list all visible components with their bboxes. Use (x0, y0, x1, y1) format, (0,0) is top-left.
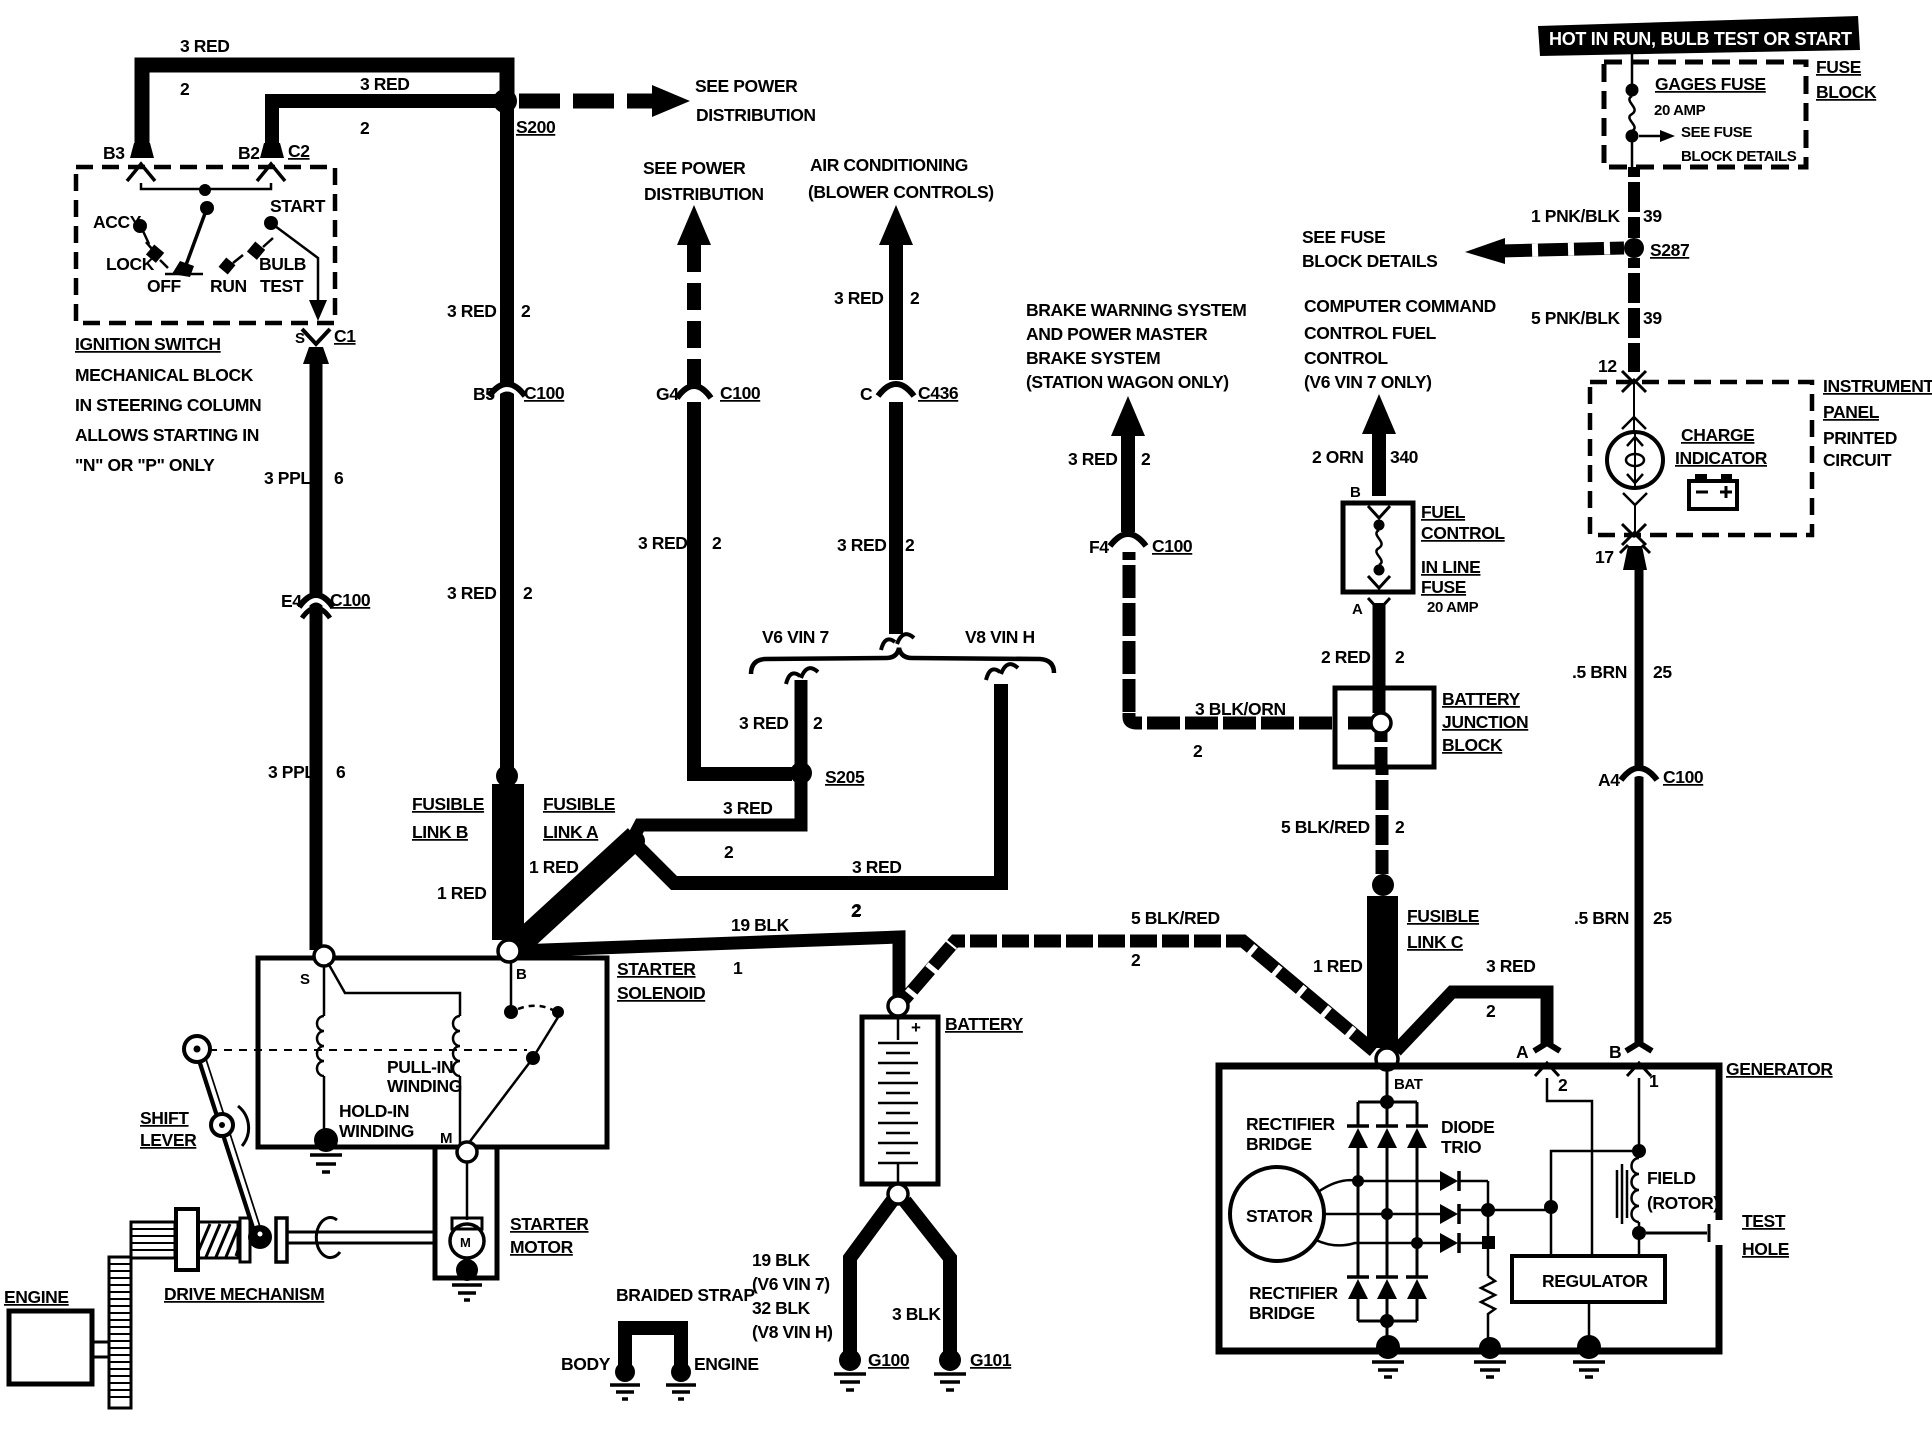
svg-text:SEE FUSE: SEE FUSE (1681, 124, 1752, 141)
connector into instrument panel (1622, 371, 1646, 392)
svg-text:2: 2 (1558, 1075, 1568, 1095)
svg-text:LOCK: LOCK (106, 254, 155, 274)
arrowhead C436 (879, 205, 913, 245)
wire 3 RED (B3 to S200 top run) (142, 65, 507, 150)
contact ACCY (133, 219, 147, 233)
wire G4 dashed (687, 245, 701, 388)
svg-text:3 PPL: 3 PPL (264, 468, 311, 488)
svg-text:E4: E4 (281, 591, 302, 611)
wire 2 ORN (1372, 434, 1386, 496)
svg-text:C436: C436 (918, 383, 959, 403)
svg-text:JUNCTION: JUNCTION (1442, 712, 1528, 732)
shift lever link dashed (209, 1049, 527, 1051)
svg-text:C100: C100 (1663, 767, 1704, 787)
svg-text:M: M (440, 1130, 452, 1147)
battery junction block (1335, 688, 1434, 767)
motor wire (466, 1162, 469, 1220)
diode trio 2 (1440, 1204, 1458, 1224)
wire 3 RED (B2 to S200) (272, 101, 500, 150)
junction (200, 201, 214, 215)
svg-text:G100: G100 (868, 1350, 910, 1370)
connector curl C436 bottom (881, 634, 914, 650)
svg-text:FUSIBLE: FUSIBLE (543, 794, 615, 814)
wire through junction block (1373, 690, 1386, 713)
diode top 1 (1347, 1124, 1369, 1128)
stator lead 1 (1318, 1180, 1440, 1192)
terminal A (1534, 1043, 1560, 1051)
switch arm (186, 208, 207, 265)
svg-text:20 AMP: 20 AMP (1654, 102, 1706, 119)
svg-text:BRIDGE: BRIDGE (1249, 1303, 1315, 1323)
connector A4 C100 (1622, 772, 1656, 783)
svg-text:2: 2 (1486, 1001, 1496, 1021)
battery terminal circle top (888, 996, 908, 1016)
starter motor housing (435, 1147, 497, 1278)
svg-text:FUSE: FUSE (1816, 57, 1861, 77)
svg-text:LINK B: LINK B (412, 822, 468, 842)
svg-text:STARTER: STARTER (510, 1214, 589, 1234)
svg-text:BLOCK: BLOCK (1816, 82, 1877, 102)
regulator box (1512, 1256, 1665, 1302)
svg-text:BODY: BODY (561, 1354, 611, 1374)
svg-text:B5: B5 (473, 384, 495, 404)
svg-text:3 RED: 3 RED (180, 36, 230, 56)
svg-text:C100: C100 (1152, 536, 1193, 556)
svg-text:2: 2 (1395, 817, 1405, 837)
connector below A (1368, 598, 1390, 610)
svg-text:BRIDGE: BRIDGE (1246, 1134, 1312, 1154)
svg-text:B: B (1350, 484, 1361, 501)
svg-text:FUSIBLE: FUSIBLE (412, 794, 484, 814)
svg-text:2: 2 (910, 288, 920, 308)
svg-text:WINDING: WINDING (387, 1076, 462, 1096)
arrowhead computer command (1362, 394, 1396, 434)
shaft flange (276, 1218, 287, 1262)
svg-text:DIODE: DIODE (1441, 1117, 1494, 1137)
svg-text:340: 340 (1390, 447, 1419, 467)
diode bottom 3 (1406, 1275, 1428, 1279)
svg-text:PANEL: PANEL (1823, 402, 1880, 422)
svg-text:.5 BRN: .5 BRN (1574, 908, 1629, 928)
contact BULB TEST (247, 242, 265, 260)
svg-text:ALLOWS STARTING IN: ALLOWS STARTING IN (75, 425, 259, 445)
svg-text:3 RED: 3 RED (1486, 956, 1536, 976)
arrow see fuse block details (1639, 135, 1662, 138)
rectifier bus top (1358, 1102, 1417, 1126)
wire 3 RED BAT to A terminal (1396, 992, 1547, 1051)
svg-text:CIRCUIT: CIRCUIT (1823, 450, 1892, 470)
connector E4 C100 (300, 598, 332, 610)
svg-text:2: 2 (1395, 647, 1405, 667)
svg-text:INDICATOR: INDICATOR (1675, 448, 1768, 468)
svg-text:S287: S287 (1650, 240, 1689, 260)
svg-text:19 BLK: 19 BLK (731, 915, 790, 935)
svg-text:+: + (911, 1018, 921, 1037)
svg-text:CONTROL: CONTROL (1421, 523, 1505, 543)
svg-text:2: 2 (905, 535, 915, 555)
svg-text:3 BLK: 3 BLK (892, 1304, 941, 1324)
svg-text:REGULATOR: REGULATOR (1542, 1271, 1648, 1291)
drive flange (176, 1209, 198, 1270)
wire S205 down-left to link A splice (630, 775, 801, 844)
svg-text:3 RED: 3 RED (852, 857, 902, 877)
charge indicator bulb (1633, 384, 1635, 432)
shift lever fulcrum (211, 1114, 233, 1136)
svg-text:6: 6 (334, 468, 344, 488)
connector curl V8 (986, 664, 1018, 680)
diode trio 3 (1440, 1233, 1458, 1253)
svg-text:(V6 VIN 7): (V6 VIN 7) (752, 1274, 830, 1294)
ground G100 (839, 1349, 861, 1371)
svg-text:3 RED: 3 RED (723, 798, 773, 818)
svg-text:5 PNK/BLK: 5 PNK/BLK (1531, 308, 1621, 328)
svg-text:BATTERY: BATTERY (1442, 689, 1521, 709)
fusible link B (492, 784, 524, 940)
svg-text:32 BLK: 32 BLK (752, 1298, 811, 1318)
splice at fusible link C top (1372, 874, 1394, 896)
svg-text:C: C (860, 384, 873, 404)
svg-text:SEE FUSE: SEE FUSE (1302, 227, 1385, 247)
svg-text:WINDING: WINDING (339, 1121, 414, 1141)
fusible link C (1367, 896, 1398, 1048)
svg-text:20 AMP: 20 AMP (1427, 599, 1479, 616)
diode bottom 2 (1376, 1275, 1398, 1279)
svg-text:PULL-IN: PULL-IN (387, 1057, 453, 1077)
svg-text:HOLD-IN: HOLD-IN (339, 1101, 409, 1121)
svg-text:ENGINE: ENGINE (4, 1287, 69, 1307)
svg-text:STARTER: STARTER (617, 959, 696, 979)
svg-text:BLOCK DETAILS: BLOCK DETAILS (1681, 148, 1797, 165)
battery box (862, 1017, 938, 1184)
svg-text:CONTROL FUEL: CONTROL FUEL (1304, 323, 1437, 343)
ring gear (109, 1257, 131, 1408)
stator lead 2 (1324, 1213, 1440, 1216)
svg-text:STATOR: STATOR (1246, 1206, 1313, 1226)
svg-text:BLOCK DETAILS: BLOCK DETAILS (1302, 251, 1437, 271)
svg-text:3 PPL: 3 PPL (268, 762, 315, 782)
svg-text:AND POWER MASTER: AND POWER MASTER (1026, 324, 1208, 344)
svg-text:39: 39 (1643, 308, 1662, 328)
contact RUN (219, 258, 236, 275)
svg-text:2: 2 (360, 118, 370, 138)
ground G101 (939, 1349, 961, 1371)
svg-text:BAT: BAT (1394, 1076, 1423, 1093)
terminal M circle (457, 1142, 477, 1162)
test hole tap (1646, 1224, 1709, 1242)
svg-text:25: 25 (1653, 662, 1672, 682)
svg-text:B: B (1609, 1042, 1621, 1062)
svg-text:FUEL: FUEL (1421, 502, 1466, 522)
bridge bottom bus (1358, 1299, 1417, 1340)
solenoid switch (510, 962, 513, 1006)
splice S205 (790, 762, 812, 784)
svg-text:IGNITION SWITCH: IGNITION SWITCH (75, 334, 221, 354)
junction (199, 184, 211, 196)
trio output vertical (1487, 1181, 1490, 1276)
svg-text:12: 12 (1598, 356, 1617, 376)
svg-text:GAGES FUSE: GAGES FUSE (1655, 74, 1766, 94)
svg-text:S200: S200 (516, 117, 556, 137)
svg-text:S: S (300, 971, 310, 988)
svg-text:1 RED: 1 RED (529, 857, 579, 877)
svg-text:DRIVE MECHANISM: DRIVE MECHANISM (164, 1284, 324, 1304)
terminal B2 (260, 143, 284, 158)
svg-text:2: 2 (1141, 449, 1151, 469)
svg-text:3 RED: 3 RED (834, 288, 884, 308)
svg-text:2: 2 (1131, 950, 1141, 970)
svg-text:3 RED: 3 RED (360, 74, 410, 94)
svg-text:(V6 VIN 7 ONLY): (V6 VIN 7 ONLY) (1304, 372, 1432, 392)
field rotor coil (1617, 1164, 1627, 1224)
splice S200 (493, 89, 517, 113)
svg-text:BRAKE SYSTEM: BRAKE SYSTEM (1026, 348, 1160, 368)
svg-text:2: 2 (851, 901, 861, 921)
svg-text:2: 2 (813, 713, 823, 733)
solenoid ground (314, 1128, 338, 1152)
wire 3 PPL ignition to solenoid S (310, 362, 323, 950)
battery terminal circle bottom (888, 1184, 908, 1204)
hold-in winding (323, 966, 326, 1016)
svg-text:IN LINE: IN LINE (1421, 557, 1480, 577)
wire S205 up to V6 tap (795, 680, 808, 772)
connector G4 C100 (678, 389, 710, 401)
wire 3 RED S200 down (B5 branch) (500, 101, 514, 772)
svg-text:B2: B2 (238, 143, 260, 163)
svg-text:C1: C1 (334, 326, 356, 346)
diode top 3 (1406, 1124, 1428, 1128)
wire 5 PNK/BLK hatched (1628, 258, 1640, 372)
svg-text:DISTRIBUTION: DISTRIBUTION (644, 184, 764, 204)
svg-text:2: 2 (712, 533, 722, 553)
wire 19 BLK solenoid B to battery (516, 937, 899, 996)
svg-text:39: 39 (1643, 206, 1662, 226)
starter solenoid box (258, 958, 607, 1147)
connector F4 C100 (1111, 538, 1145, 549)
svg-text:GENERATOR: GENERATOR (1726, 1059, 1833, 1079)
svg-text:FUSE: FUSE (1421, 577, 1466, 597)
svg-text:BATTERY: BATTERY (945, 1014, 1024, 1034)
splice at fusible link B top (496, 765, 518, 787)
lever ball (248, 1225, 272, 1249)
svg-text:FUSIBLE: FUSIBLE (1407, 906, 1479, 926)
diode trio 1 (1440, 1171, 1458, 1191)
svg-text:LINK C: LINK C (1407, 932, 1464, 952)
pull-in winding (328, 963, 460, 1016)
svg-text:SEE POWER: SEE POWER (695, 76, 798, 96)
svg-text:A: A (1352, 601, 1363, 618)
svg-text:CONTROL: CONTROL (1304, 348, 1388, 368)
splice at link A top (623, 830, 645, 852)
svg-text:2: 2 (521, 301, 531, 321)
svg-text:3 RED: 3 RED (447, 583, 497, 603)
svg-text:AIR CONDITIONING: AIR CONDITIONING (810, 155, 968, 175)
battery ground legs (850, 1201, 892, 1354)
wire C436 upper (889, 245, 903, 380)
svg-text:INSTRUMENT: INSTRUMENT (1823, 376, 1932, 396)
brace V6/V8 (751, 648, 1054, 674)
svg-text:(STATION WAGON ONLY): (STATION WAGON ONLY) (1026, 372, 1229, 392)
svg-text:RUN: RUN (210, 276, 247, 296)
wire BAT to bridge (1386, 1070, 1389, 1098)
svg-text:3 RED: 3 RED (1068, 449, 1118, 469)
svg-text:A: A (1516, 1042, 1529, 1062)
svg-text:2: 2 (523, 583, 533, 603)
svg-text:SEE POWER: SEE POWER (643, 158, 746, 178)
wire G4 lower (694, 402, 792, 774)
battery icon (1689, 481, 1737, 509)
svg-text:MECHANICAL BLOCK: MECHANICAL BLOCK (75, 365, 254, 385)
ignition switch mechanical block box (76, 167, 335, 323)
svg-text:1 RED: 1 RED (437, 883, 487, 903)
arrowhead brake warning (1111, 396, 1145, 436)
fuse block box (1604, 62, 1806, 167)
terminal 17 (1623, 546, 1647, 570)
svg-text:M: M (460, 1235, 471, 1250)
svg-text:S205: S205 (825, 767, 865, 787)
wire C436 lower (889, 402, 903, 634)
connector B5 C100 (490, 388, 524, 399)
svg-text:START: START (270, 196, 326, 216)
svg-text:G4: G4 (656, 384, 679, 404)
battery cells (897, 1017, 900, 1040)
svg-text:DISTRIBUTION: DISTRIBUTION (696, 105, 816, 125)
svg-text:(V8 VIN H): (V8 VIN H) (752, 1322, 833, 1342)
svg-text:C100: C100 (720, 383, 761, 403)
svg-text:TEST: TEST (260, 276, 304, 296)
svg-text:IN STEERING COLUMN: IN STEERING COLUMN (75, 395, 261, 415)
terminal S circle (314, 946, 334, 966)
wire dashed arrow to power distribution (519, 94, 652, 109)
motor M (450, 1224, 484, 1258)
svg-text:3 RED: 3 RED (837, 535, 887, 555)
gages fuse element (1631, 54, 1634, 84)
connector C C436 (879, 388, 913, 399)
svg-text:PRINTED: PRINTED (1823, 428, 1897, 448)
svg-text:2: 2 (724, 842, 734, 862)
svg-text:17: 17 (1595, 547, 1614, 567)
svg-text:3 RED: 3 RED (638, 533, 688, 553)
wire switch common bus (141, 183, 271, 189)
svg-text:RECTIFIER: RECTIFIER (1249, 1283, 1339, 1303)
engine box (9, 1311, 92, 1384)
svg-text:TRIO: TRIO (1441, 1137, 1481, 1157)
svg-text:TEST: TEST (1742, 1211, 1786, 1231)
svg-text:1: 1 (733, 958, 743, 978)
wire .5 BRN (1635, 570, 1644, 1044)
svg-text:OFF: OFF (147, 276, 182, 296)
bridge verticals (1358, 1148, 1417, 1277)
svg-text:19 BLK: 19 BLK (752, 1250, 811, 1270)
contact LOCK (146, 245, 164, 263)
svg-text:V8 VIN H: V8 VIN H (965, 627, 1035, 647)
motor armature (452, 1218, 482, 1229)
svg-text:2 ORN: 2 ORN (1312, 447, 1363, 467)
wire 1 PNK/BLK hatched (1628, 167, 1640, 238)
wire B to field (1638, 1078, 1641, 1148)
helical spline (198, 1222, 238, 1258)
svg-text:25: 25 (1653, 908, 1672, 928)
svg-text:COMPUTER COMMAND: COMPUTER COMMAND (1304, 296, 1496, 316)
resistor (1481, 1276, 1495, 1342)
stator lead 3 (1316, 1240, 1440, 1245)
svg-text:B3: B3 (103, 143, 125, 163)
svg-text:LEVER: LEVER (140, 1130, 197, 1150)
svg-text:5 BLK/RED: 5 BLK/RED (1131, 908, 1220, 928)
svg-text:C100: C100 (524, 383, 565, 403)
wire 3 RED to F4 (1121, 436, 1135, 532)
svg-text:C2: C2 (288, 141, 310, 161)
fuel control in line fuse box (1343, 503, 1413, 592)
svg-text:MOTOR: MOTOR (510, 1237, 574, 1257)
wire 3 BLK/ORN hatched (1129, 552, 1375, 723)
svg-text:F4: F4 (1089, 537, 1109, 557)
fuse element (1368, 506, 1390, 518)
instrument panel box (1590, 382, 1812, 535)
terminal B (1626, 1043, 1652, 1051)
svg-text:6: 6 (336, 762, 346, 782)
terminal C1 (302, 329, 330, 344)
braided strap (625, 1328, 681, 1370)
shift lever rod (200, 1054, 258, 1234)
terminal B circle (498, 940, 520, 962)
hatched arrow to fuse block details (1500, 248, 1624, 251)
generator box (1219, 1066, 1719, 1351)
svg-text:C100: C100 (330, 590, 371, 610)
arrowhead G4 (677, 205, 711, 245)
svg-text:3 BLK/ORN: 3 BLK/ORN (1195, 699, 1286, 719)
svg-text:FIELD: FIELD (1647, 1168, 1696, 1188)
svg-text:CHARGE: CHARGE (1681, 425, 1754, 445)
svg-text:SOLENOID: SOLENOID (617, 983, 705, 1003)
junction circle (1371, 713, 1391, 733)
wire field to regulator (1638, 1233, 1641, 1256)
ground bridge (1376, 1335, 1400, 1359)
svg-text:SHIFT: SHIFT (140, 1108, 189, 1128)
svg-text:2: 2 (180, 79, 190, 99)
pinion gear (131, 1222, 175, 1258)
svg-text:.5 BRN: .5 BRN (1572, 662, 1627, 682)
svg-text:BULB: BULB (259, 254, 306, 274)
wire start to C1 (271, 223, 318, 303)
svg-text:3 RED: 3 RED (447, 301, 497, 321)
svg-text:"N" OR "P" ONLY: "N" OR "P" ONLY (75, 455, 215, 475)
shift lever pivot top (184, 1036, 210, 1062)
wire 5 BLK/RED battery to generator hatched (904, 941, 1374, 1051)
HOT IN RUN banner (1538, 16, 1860, 56)
wire A to regulator (1547, 1078, 1592, 1256)
svg-text:2 RED: 2 RED (1321, 647, 1371, 667)
contact START (264, 216, 278, 230)
svg-text:BLOCK: BLOCK (1442, 735, 1503, 755)
diode top 2 (1376, 1124, 1398, 1128)
wire field top to regulator (1551, 1151, 1639, 1256)
wire regulator ground (1588, 1302, 1591, 1340)
svg-text:BRAIDED STRAP: BRAIDED STRAP (616, 1285, 755, 1305)
terminal B3 (130, 143, 154, 158)
svg-text:HOT IN RUN, BULB TEST OR START: HOT IN RUN, BULB TEST OR START (1549, 29, 1852, 49)
collar (240, 1218, 250, 1262)
svg-text:HOLE: HOLE (1742, 1239, 1789, 1259)
BAT terminal circle (1376, 1048, 1398, 1070)
shaft (287, 1232, 433, 1243)
svg-text:V6 VIN 7: V6 VIN 7 (762, 627, 829, 647)
svg-text:3 RED: 3 RED (739, 713, 789, 733)
svg-text:RECTIFIER: RECTIFIER (1246, 1114, 1336, 1134)
svg-text:2: 2 (1193, 741, 1203, 761)
wire 2 RED (1373, 603, 1386, 690)
svg-text:BRAKE WARNING SYSTEM: BRAKE WARNING SYSTEM (1026, 300, 1246, 320)
svg-text:A4: A4 (1598, 770, 1620, 790)
